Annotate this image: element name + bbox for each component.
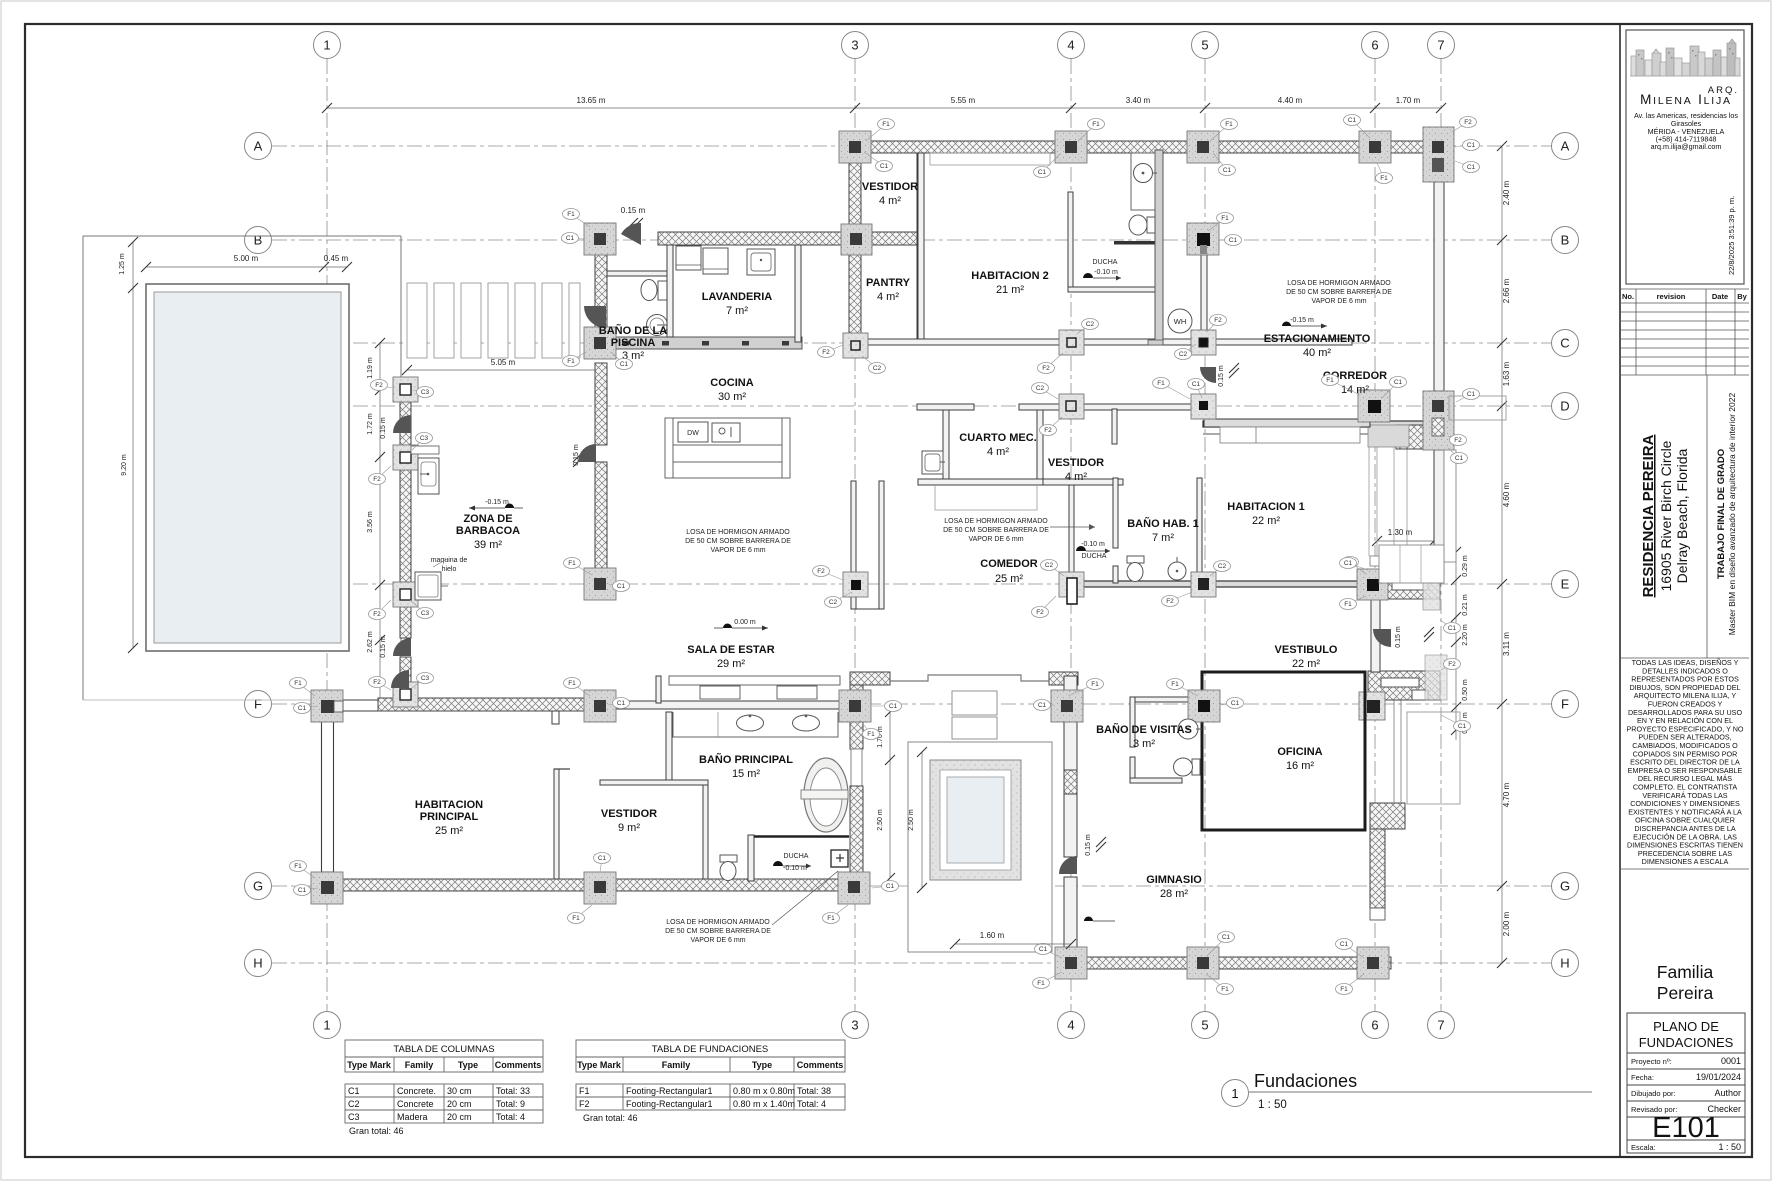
svg-text:E: E [1561,577,1570,592]
svg-text:No.: No. [1622,292,1634,301]
garage entry canopy right of 7D [1449,396,1506,420]
grid bubble 4 top [1058,32,1085,59]
room label VESTIDOR mid [1048,457,1104,483]
svg-text:4.70 m: 4.70 m [1502,782,1511,807]
tag C1 [1034,154,1061,178]
svg-text:DE 50 CM SOBRE BARRERA DE: DE 50 CM SOBRE BARRERA DE [665,928,771,935]
svg-text:1 : 50: 1 : 50 [1718,1142,1741,1152]
wall cuarto mec west [943,410,949,484]
svg-text:HABITACION: HABITACION [415,799,483,811]
svg-text:FUNDACIONES: FUNDACIONES [1639,1035,1734,1050]
svg-text:WH: WH [1174,317,1187,326]
tag F2 [818,345,844,358]
tag F1 [1078,119,1105,142]
svg-text:F1: F1 [1171,681,1179,688]
room label SALA DE ESTAR [687,644,774,670]
barbacoa sink [418,458,439,494]
svg-text:F1: F1 [1092,121,1100,128]
wall baño hab1 east [1197,478,1202,583]
svg-text:Fundaciones: Fundaciones [1254,1071,1357,1091]
svg-text:4: 4 [1067,1018,1074,1033]
room label BAÑO DE VISITAS [1096,723,1192,750]
kitchen sink [712,423,740,442]
svg-text:19/01/2024: 19/01/2024 [1696,1072,1741,1082]
svg-text:3 m²: 3 m² [1133,738,1155,750]
room label COMEDOR [980,558,1038,585]
grid bubble 1 bottom [314,1012,341,1039]
svg-text:4 m²: 4 m² [877,291,899,303]
barbacoa west wall seg1 [400,402,411,445]
baño visitas west wall [1130,697,1135,747]
svg-text:DE 50 CM SOBRE BARRERA DE: DE 50 CM SOBRE BARRERA DE [1286,289,1392,296]
room label ZONA DE BARBACOA [456,513,520,551]
column F1+C1 at 4A [1055,131,1087,163]
svg-text:F1: F1 [1157,380,1165,387]
svg-text:Gran total: 46: Gran total: 46 [349,1126,404,1136]
svg-text:F1: F1 [568,680,576,687]
losa text 4 gimnasio [665,871,838,944]
tag F2 [813,566,844,581]
svg-text:2.40 m: 2.40 m [1502,180,1511,205]
svg-text:1 : 50: 1 : 50 [1258,1099,1287,1111]
grid bubble D right [1552,393,1579,420]
deck board 2 [434,283,454,358]
tag F1 [1153,378,1191,400]
baño ppal tub [801,758,848,832]
svg-text:PISCINA: PISCINA [611,337,656,349]
svg-text:C3: C3 [421,389,430,396]
tag C1 [1220,235,1242,246]
barbacoa west wall seg2 [400,470,411,582]
svg-text:DUCHA: DUCHA [1093,259,1118,266]
terrace boundary north [83,235,401,237]
svg-text:H: H [253,956,262,971]
tabla de fundaciones [576,1040,845,1110]
svg-text:9.20 m: 9.20 m [121,454,128,476]
tag F1 [1322,375,1361,396]
svg-text:Comments: Comments [797,1060,844,1070]
tag C1 [872,701,902,712]
deck board 7 [569,283,580,358]
svg-text:2.62 m: 2.62 m [367,631,374,653]
svg-text:TABLA DE COLUMNAS: TABLA DE COLUMNAS [393,1044,494,1055]
svg-text:By: By [1737,292,1747,301]
grid line A [272,145,1551,147]
column F1+C1 at 2E [584,568,616,600]
grid bubble B right [1552,227,1579,254]
svg-text:GIMNASIO: GIMNASIO [1146,874,1202,886]
svg-text:LOSA DE HORMIGON ARMADO: LOSA DE HORMIGON ARMADO [944,518,1048,525]
svg-text:3: 3 [851,1018,858,1033]
grid bubble 1 top [314,32,341,59]
svg-text:VAPOR DE 6 mm: VAPOR DE 6 mm [968,536,1023,543]
room label BAÑO DE LA PISCINA [599,324,668,362]
grid bubble A left [245,133,272,160]
grid line H [272,962,1551,964]
svg-text:22/8/2025 3:51:39 p. m.: 22/8/2025 3:51:39 p. m. [1727,196,1736,275]
baño ppal dim 1.70 m [885,707,895,883]
column F2+C2 at 4C [1059,330,1084,355]
svg-text:Escala:: Escala: [1631,1143,1656,1152]
svg-text:LOSA DE HORMIGON ARMADO: LOSA DE HORMIGON ARMADO [1287,280,1391,287]
svg-text:BAÑO HAB. 1: BAÑO HAB. 1 [1127,517,1199,530]
svg-text:F2: F2 [373,679,381,686]
svg-text:6: 6 [1371,38,1378,53]
room label COCINA [710,377,753,403]
svg-text:F2: F2 [1214,317,1222,324]
wall gimnasio east upper block [1370,803,1405,829]
svg-text:C2: C2 [1036,385,1045,392]
svg-text:F1: F1 [1326,377,1334,384]
column F1+C1 at 2F [584,690,616,722]
grid bubble F left [245,691,272,718]
svg-text:9 m²: 9 m² [618,822,640,834]
project name cell [1706,375,1708,658]
svg-text:C1: C1 [1038,169,1047,176]
svg-text:C1: C1 [1222,934,1231,941]
svg-text:5: 5 [1201,1018,1208,1033]
hab2 closet line [930,153,1050,165]
svg-text:Footing-Rectangular1: Footing-Rectangular1 [626,1099,713,1109]
svg-text:F1: F1 [1380,175,1388,182]
grid bubble 5 bottom [1192,1012,1219,1039]
wall grid3 patio west hatched upper [850,672,863,749]
svg-text:LOSA DE HORMIGON ARMADO: LOSA DE HORMIGON ARMADO [686,529,790,536]
column F1+C1 at 3F [839,690,871,722]
svg-text:A: A [1561,139,1570,154]
svg-text:F2: F2 [1448,661,1456,668]
grid bubble E left [245,571,272,598]
svg-text:4 m²: 4 m² [879,195,901,207]
wall sala/baño ppal partition hooks [656,676,661,703]
patio north edge line [890,675,1049,681]
room label VESTIDOR 9 [601,808,657,834]
svg-text:1: 1 [323,1018,330,1033]
wall hab2 west [917,153,924,339]
patio dim 2.50 m [917,747,927,893]
door arc barbacoa south [393,638,411,656]
room label LAVANDERIA [702,291,773,317]
svg-text:C1: C1 [1467,391,1476,398]
elevation marker 0.00 m [714,619,768,631]
baño hab1 toilet [1127,556,1144,582]
logo card box [1626,30,1744,284]
tag C3 [413,387,434,398]
grid bubble D left [245,393,272,420]
svg-text:C2: C2 [1179,351,1188,358]
grid bubble A right [1552,133,1579,160]
tag F1 [860,720,880,740]
column F1+C1 at 5H [1187,947,1219,979]
svg-text:1.60 m: 1.60 m [980,931,1005,940]
svg-text:7: 7 [1437,38,1444,53]
terrace boundary south [83,699,327,701]
column F2+C2 at 5E [1191,572,1216,597]
maquina de hielo box [415,572,448,600]
tag F2 [1441,659,1461,671]
svg-text:16 m²: 16 m² [1286,760,1314,772]
wall hab principal west [322,721,334,872]
svg-text:5.55 m: 5.55 m [951,96,976,105]
pool left dims 1.25 / 9.20 [128,237,138,653]
svg-text:C1: C1 [886,883,895,890]
tag F1 [1336,974,1365,995]
svg-text:VESTIDOR: VESTIDOR [601,808,657,820]
column F1+C1 at 5A [1187,131,1219,163]
svg-text:LAVANDERIA: LAVANDERIA [702,291,773,303]
tag C1 [1344,115,1371,139]
wall grid4 patio east [1064,676,1077,857]
door arc piscina west [584,306,606,328]
wall estacionamiento south step [1203,433,1396,435]
svg-text:7 m²: 7 m² [1152,532,1174,544]
svg-text:5: 5 [1201,38,1208,53]
barbacoa west wall seg3 [400,607,411,638]
svg-text:0.80 m x 0.80m: 0.80 m x 0.80m [733,1086,795,1096]
wall F row west white segment [343,700,378,711]
room label VESTIBULO [1275,644,1338,670]
svg-text:BAÑO PRINCIPAL: BAÑO PRINCIPAL [699,753,793,766]
tag F2 [369,600,392,620]
tag F1 [1033,972,1063,989]
svg-text:Fecha:: Fecha: [1631,1073,1654,1082]
tag F2 [1040,417,1063,436]
svg-text:VESTIDOR: VESTIDOR [1048,457,1104,469]
svg-text:F1: F1 [1091,681,1099,688]
tag F1 [568,905,593,924]
svg-text:COCINA: COCINA [710,377,753,389]
svg-text:arq.m.ilija@gmail.com: arq.m.ilija@gmail.com [1651,142,1722,151]
tag C2 [862,356,886,374]
patio fountain outer [908,742,1052,952]
baño ppal vanity [673,712,838,737]
svg-text:VAPOR DE 6 mm: VAPOR DE 6 mm [710,547,765,554]
room label VESTIDOR top [862,181,918,207]
svg-text:Author: Author [1714,1088,1741,1098]
svg-text:40 m²: 40 m² [1303,347,1331,359]
tag C1 [294,703,319,714]
tag F1 [563,209,591,228]
svg-text:20 cm: 20 cm [447,1099,472,1109]
svg-text:Familia: Familia [1657,962,1714,982]
svg-text:VESTIDOR: VESTIDOR [862,181,918,193]
wall grid3 A-B [849,153,861,233]
svg-text:HABITACION 1: HABITACION 1 [1227,501,1304,513]
tag C1 [1448,448,1468,464]
grid bubble H left [245,950,272,977]
wall D row corredor south seg1 [917,404,974,410]
svg-text:F: F [254,697,262,712]
column F2+C2 at 5D [1191,394,1216,419]
svg-text:F1: F1 [579,1086,590,1096]
svg-text:16905 River Birch Circle: 16905 River Birch Circle [1658,440,1674,591]
svg-text:C1: C1 [620,361,629,368]
tag C1 [864,152,893,172]
svg-text:DUCHA: DUCHA [784,853,809,860]
svg-text:F1: F1 [1221,215,1229,222]
losa text 3 estacionamiento [1286,280,1392,305]
wall gimnasio east [1370,829,1385,908]
column C1 at 6F [1367,700,1380,713]
svg-text:Type: Type [458,1060,478,1070]
svg-text:0.00 m: 0.00 m [734,619,756,626]
tag F2 [1032,596,1057,618]
grid bubble C right [1552,330,1579,357]
svg-text:DE 50 CM SOBRE BARRERA DE: DE 50 CM SOBRE BARRERA DE [685,538,791,545]
svg-text:PRINCIPAL: PRINCIPAL [420,811,479,823]
dim 0.15 m cocina door [573,444,583,467]
porch rect [1407,712,1460,804]
door arc hab principal [391,670,409,688]
svg-text:Pereira: Pereira [1657,983,1714,1003]
svg-text:C1: C1 [1192,381,1201,388]
wall patio north east corner [1049,672,1078,685]
svg-text:0.21 m: 0.21 m [1462,594,1469,616]
tag C1 [872,881,899,892]
svg-text:Comments: Comments [495,1060,542,1070]
tag C3 [410,600,434,619]
room label HABITACION PRINCIPAL [415,799,483,837]
svg-text:-0.15 m: -0.15 m [1290,317,1314,324]
tag F1 [1376,163,1393,184]
svg-text:3: 3 [851,38,858,53]
svg-text:F2: F2 [1166,598,1174,605]
column C3+F2 barbacoa 1 [393,377,418,402]
entry walkway lines D-E [1369,447,1407,556]
tag C2 [825,592,853,608]
svg-text:Footing-Rectangular1: Footing-Rectangular1 [626,1086,713,1096]
svg-text:F2: F2 [1036,609,1044,616]
deck board 5 [515,283,535,358]
svg-text:39 m²: 39 m² [474,539,502,551]
tag C1 [608,698,630,709]
column F1+C1 at 3B [841,224,872,255]
svg-text:Madera: Madera [397,1112,428,1122]
door arc gimnasio patio [1059,856,1077,874]
wall grid3 patio west hatched lower [850,786,863,881]
tag F2 [1448,435,1467,446]
hab2 bath counter [1131,153,1155,210]
vestidor2 NW stub [552,711,559,724]
svg-text:C3: C3 [348,1112,360,1122]
room label CUARTO MEC. [959,432,1036,458]
pantry east wall [918,153,924,339]
svg-text:25 m²: 25 m² [995,573,1023,585]
svg-text:G: G [1560,879,1570,894]
column F1+C1 at 6D [1358,390,1390,422]
tag C1 [1213,153,1236,176]
column C3+F2 barbacoa 2 [393,445,418,470]
grid bubble E right [1552,571,1579,598]
column F1+C1 at 2C [584,327,616,359]
svg-text:F2: F2 [1044,427,1052,434]
svg-text:1.25 m: 1.25 m [119,253,126,275]
svg-text:4 m²: 4 m² [1065,471,1087,483]
svg-text:0.15 m: 0.15 m [1085,834,1092,856]
losa text 2 corredor [943,518,1095,543]
svg-text:Total: 9: Total: 9 [496,1099,525,1109]
svg-text:CUARTO MEC.: CUARTO MEC. [959,432,1036,444]
hab ppal / vestidor2 wall [554,769,559,879]
svg-text:-0.15 m: -0.15 m [485,499,509,506]
svg-text:0.15 m: 0.15 m [1218,365,1225,387]
svg-text:F2: F2 [1454,437,1462,444]
svg-text:0001: 0001 [1721,1056,1741,1066]
svg-text:14 m²: 14 m² [1341,384,1369,396]
ducha hab2 label [1083,259,1121,281]
svg-text:F1: F1 [827,915,835,922]
revision table [1620,289,1749,375]
dim 0.15 m door top B [621,206,646,228]
ducha hab1 label [1076,541,1110,560]
column F2+C2 at 4E [1059,572,1084,604]
svg-text:DIMENSIONES A ESCALA: DIMENSIONES A ESCALA [1642,857,1729,866]
svg-text:1.63 m: 1.63 m [1502,361,1511,386]
patio steps lower [952,717,997,739]
svg-text:C1: C1 [1448,625,1457,632]
lavanderia sink [747,249,775,275]
svg-text:22 m²: 22 m² [1252,515,1280,527]
wall E block right pad [1423,556,1440,610]
wall E block inner white [1392,580,1428,590]
room label BAÑO PRINCIPAL [699,753,793,780]
kitchen island outline [665,418,790,478]
tag C3 [412,433,433,451]
tag C2 [1077,319,1099,335]
svg-text:OFICINA: OFICINA [1277,746,1322,758]
grid line C [272,342,1551,344]
svg-text:F1: F1 [294,863,302,870]
svg-text:0.15 m: 0.15 m [1395,626,1402,648]
view title Fundaciones [1222,1071,1593,1111]
grid bubble G left [245,873,272,900]
svg-text:30 m²: 30 m² [718,391,746,403]
svg-text:4.60 m: 4.60 m [1502,482,1511,507]
tag C1 [1382,377,1407,399]
column F1+C1 at 5F [1188,690,1220,722]
svg-text:hielo: hielo [442,566,457,573]
column F1+C1 at 2B [584,223,616,255]
door arc top B [621,223,641,245]
deck board 1 [407,283,427,358]
barbacoa counter top [411,446,439,454]
project data box [1627,1013,1745,1153]
tag C2 [1175,344,1197,360]
barbacoa west wall seg4 [400,657,411,682]
wall garage east D-E [1434,450,1444,581]
lavanderia washer 1 [676,246,701,270]
wall comedor west grid3 pair [851,481,856,609]
svg-text:0.29 m: 0.29 m [1462,555,1469,577]
wh circle [1168,309,1192,333]
svg-text:BARBACOA: BARBACOA [456,525,520,537]
svg-text:Type: Type [752,1060,772,1070]
svg-text:4.40 m: 4.40 m [1278,96,1303,105]
svg-text:0.15 m: 0.15 m [573,444,580,466]
tag C3 [412,673,434,689]
swimming pool water [154,292,341,643]
svg-text:maquina de: maquina de [431,557,468,564]
deck board 4 [488,283,508,358]
svg-text:C1: C1 [298,887,307,894]
cuarto mec slab lines [935,485,1037,510]
tag C1 [1456,389,1480,403]
wall comedor east grid4 [1069,485,1074,583]
svg-text:DE 50 CM SOBRE BARRERA DE: DE 50 CM SOBRE BARRERA DE [943,527,1049,534]
grid bubble 7 top [1428,32,1455,59]
tag F1 [823,905,849,924]
svg-text:COMEDOR: COMEDOR [980,558,1038,570]
